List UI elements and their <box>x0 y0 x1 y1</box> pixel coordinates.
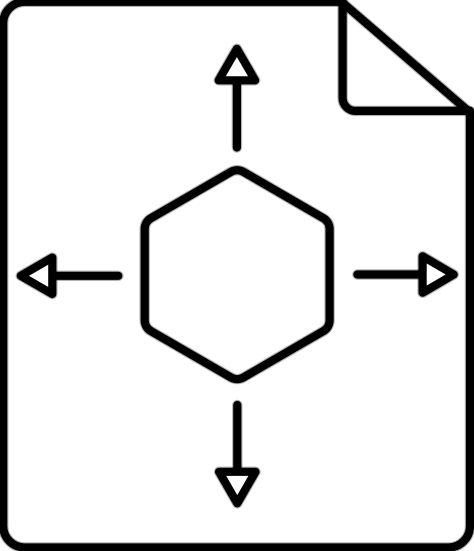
down arrow shaft <box>233 405 241 472</box>
right arrow shaft <box>357 270 422 278</box>
center hexagon <box>145 170 330 379</box>
fold flap <box>343 2 470 111</box>
up arrow shaft <box>233 80 241 147</box>
right arrow head <box>423 256 454 292</box>
down arrow head <box>219 472 255 504</box>
left arrow shaft <box>52 272 118 280</box>
up arrow head <box>219 49 255 81</box>
left arrow head <box>21 258 53 294</box>
